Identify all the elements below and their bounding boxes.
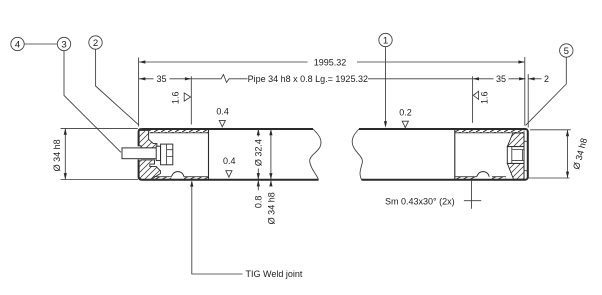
balloon link 4-3 [24,43,57,45]
weld notch left [171,172,184,177]
svg-text:0.8: 0.8 [253,196,263,209]
dimension Ø34h8 left [52,128,138,179]
left end cap hatched walls [139,130,209,180]
balloon 5 [560,44,573,57]
svg-text:0.4: 0.4 [223,156,236,166]
svg-text:1995.32: 1995.32 [314,58,347,68]
balloon 5 leader to cap corner [526,57,567,125]
cap top wall band [455,130,523,133]
cap lower-left block [139,160,161,180]
cap right inner step line [523,131,525,180]
balloon 3 [57,37,70,50]
svg-text:35: 35 [156,74,166,84]
TIG weld joint callout [190,180,303,279]
pipe left section outline [139,129,319,180]
svg-text:2: 2 [93,38,98,49]
cap upper-left block [139,131,157,148]
balloon 1 [379,33,392,46]
svg-text:Pipe 34 h8 x 0.8 Lg.= 1925.32: Pipe 34 h8 x 0.8 Lg.= 1925.32 [248,74,368,84]
pin (stud) left [122,148,161,159]
cap bottom wall band [152,177,171,180]
weld notch right [477,172,490,177]
cap face stubs [524,141,528,170]
svg-text:Sm 0.43x30° (2x): Sm 0.43x30° (2x) [385,196,455,206]
svg-text:5: 5 [564,46,569,57]
pipe right break line [352,129,362,180]
svg-text:1: 1 [383,35,388,46]
svg-text:0.2: 0.2 [399,107,412,117]
right end cap hatched walls [455,130,528,180]
cap inner face [208,130,210,180]
dimension Ø32.4 / 0.8 / Ø34h8 centre [253,129,276,224]
pipe left break line [310,129,321,180]
dimension Ø34h8 right [527,130,589,178]
break squiggle in dim line [216,75,234,83]
surface finish 1.6 left [171,92,191,105]
pipe right section outline [359,129,528,180]
svg-text:3: 3 [61,39,66,50]
cap inner face [454,130,456,180]
svg-text:TIG Weld joint: TIG Weld joint [246,269,303,279]
cap bottom wall band [455,177,477,180]
svg-text:0.4: 0.4 [216,106,229,116]
svg-text:35: 35 [496,74,506,84]
svg-text:1.6: 1.6 [171,92,181,105]
svg-text:4: 4 [15,39,21,50]
surface finish 1.6 right [473,76,490,123]
pin head block [161,144,173,165]
surface finish 0.2 top right [399,107,412,127]
balloon 4 [11,37,24,50]
cap upper-right block [507,133,524,147]
socket block right [507,147,524,164]
surface finish 0.4 inner [223,156,236,177]
svg-text:1.6: 1.6 [480,91,490,104]
svg-text:Ø 32.4: Ø 32.4 [254,139,264,166]
svg-text:Ø 34 h8: Ø 34 h8 [267,192,277,224]
dimension 1995.32 [139,57,525,127]
surface finish 0.4 top [216,106,229,126]
balloon 2 leader to cap corner [96,49,139,125]
pin collar [156,146,160,160]
balloon 2 [89,36,102,49]
balloon 3 leader to pin [64,51,121,153]
Sm chamfer callout [385,180,481,209]
cap lower-right block [507,163,524,179]
svg-text:Ø 34 h8: Ø 34 h8 [52,139,62,171]
dimension 35 left / pipe callout / 35 right / 2 [139,74,549,128]
balloon 1 leader to pipe [385,47,387,122]
svg-text:2: 2 [544,74,549,84]
cap top wall band [149,130,209,133]
